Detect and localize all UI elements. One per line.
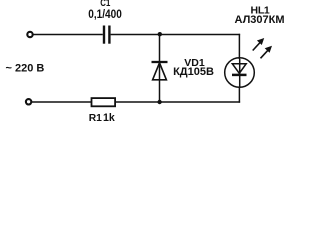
svg-text:КД105В: КД105В [173,66,214,78]
wire LED branch bottom vertical [238,87,240,103]
diode VD1 [152,62,168,80]
capacitor C1 [104,26,109,44]
terminal top-left [27,32,32,37]
LED HL1 [225,58,255,88]
node junction bottom [157,100,161,104]
label C1 [100,0,110,9]
wire diode branch vertical [159,35,161,103]
label ~220V [6,63,45,75]
resistor R1 [92,98,116,106]
value label 0,1/400 [88,7,122,21]
value label AL307KM [234,14,284,26]
wire top left segment [33,34,103,36]
terminal bottom-left [26,99,31,104]
node junction top [158,32,162,36]
wire bottom left segment [32,101,92,103]
value label KD105V [173,66,214,78]
LED light arrow 2 [261,46,273,59]
svg-text:АЛ307КМ: АЛ307КМ [234,14,284,26]
wire LED branch top vertical [238,34,240,59]
label R1 1k [89,112,115,124]
svg-text:R1: R1 [89,113,102,124]
svg-text:1k: 1k [103,112,115,124]
wire top right segment [111,34,241,36]
svg-text:0,1/400: 0,1/400 [88,7,122,21]
LED light arrow 1 [253,38,265,51]
label VD1 [184,57,205,69]
svg-text:~ 220 В: ~ 220 В [6,63,45,75]
label HL1 [251,5,270,17]
wire bottom right segment [115,101,240,103]
